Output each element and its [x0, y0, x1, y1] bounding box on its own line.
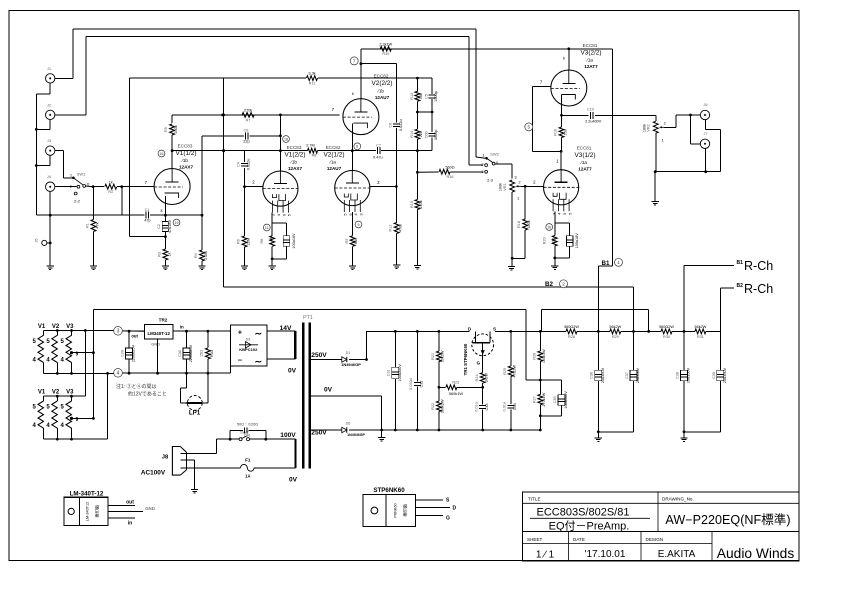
- resistor R27 body: [538, 394, 543, 405]
- title block table: [523, 492, 799, 561]
- junction EQ midB: [431, 111, 434, 114]
- svg-text:PT1: PT1: [303, 315, 313, 321]
- capacitor C31 body: [392, 367, 399, 378]
- svg-text:R30: R30: [663, 335, 670, 339]
- svg-text:20u350V: 20u350V: [601, 367, 605, 383]
- ground filt2: [683, 432, 685, 438]
- svg-text:R9: R9: [345, 239, 349, 244]
- wire 14V c: [267, 358, 296, 360]
- wire J4 out: [55, 186, 77, 188]
- wire V2a grid: [370, 186, 396, 188]
- svg-text:47p: 47p: [144, 219, 150, 223]
- ground J8: [191, 490, 198, 494]
- wire R18 join: [512, 257, 525, 259]
- svg-text:∕1b: ∕1b: [290, 160, 297, 165]
- HT rail through TR1: [439, 330, 470, 332]
- wire J8 pin3: [181, 467, 241, 469]
- svg-text:3900p: 3900p: [434, 130, 438, 141]
- terminal 16b: [546, 224, 553, 231]
- svg-text:R14: R14: [410, 131, 414, 138]
- resistor R8 body: [308, 148, 318, 153]
- capacitor C34 body: [507, 405, 514, 408]
- VR2 body: [653, 121, 658, 133]
- svg-text:in: in: [180, 325, 184, 330]
- junction VR1 gnd: [511, 257, 514, 260]
- heater winding V1 g1: [38, 335, 44, 362]
- svg-text:1: 1: [556, 158, 559, 163]
- svg-text:5.1k: 5.1k: [269, 237, 273, 244]
- wire B1 RCh drop: [683, 265, 685, 331]
- junction src riser: [539, 330, 542, 333]
- svg-text:∕1a: ∕1a: [329, 160, 336, 165]
- wire shield join1: [36, 93, 50, 95]
- svg-text:19: 19: [175, 221, 179, 225]
- junction J6 node: [689, 114, 692, 117]
- svg-text:C36: C36: [590, 372, 594, 379]
- svg-text:0.47u: 0.47u: [373, 155, 383, 159]
- jack J4: [46, 182, 55, 191]
- wire HT rail: [367, 330, 439, 332]
- terminal 4 rail: [114, 369, 123, 378]
- svg-text:DATE: DATE: [573, 537, 585, 542]
- svg-text:R23: R23: [452, 380, 459, 384]
- svg-text:12AX7: 12AX7: [288, 166, 302, 171]
- regulated feed line: [542, 308, 649, 310]
- junction snub a: [229, 438, 232, 441]
- svg-text:KBPC102: KBPC102: [239, 347, 258, 352]
- junction plate node V2b: [360, 62, 363, 65]
- triode V2(1/2): [335, 170, 370, 212]
- svg-text:C2: C2: [157, 224, 161, 229]
- svg-text:V2: V2: [52, 324, 60, 330]
- ground R17: [393, 265, 400, 269]
- svg-text:20u350V: 20u350V: [723, 367, 727, 383]
- capacitor C1500p: [429, 95, 436, 98]
- wire fuse out: [254, 467, 295, 469]
- junction brail C33: [481, 429, 484, 432]
- wire SRPP tie h: [533, 150, 562, 152]
- terminal 2 B2: [560, 280, 568, 288]
- V2(2/2) cathode lead: [351, 124, 353, 171]
- filter column B2: [633, 331, 635, 370]
- svg-text:約12Vであること: 約12Vであること: [128, 391, 167, 398]
- svg-text:J1: J1: [47, 66, 52, 71]
- svg-text:C39: C39: [712, 372, 716, 379]
- svg-text:250V: 250V: [311, 352, 327, 359]
- ST pkg pins: [416, 499, 443, 501]
- heater2 bottom bus: [44, 438, 108, 440]
- svg-text:C4: C4: [236, 162, 240, 167]
- svg-text:C32: C32: [420, 381, 424, 388]
- junction B2 at plate line: [222, 149, 225, 152]
- wire 14V b: [294, 331, 296, 359]
- junction V1b plate node: [279, 149, 282, 152]
- wire out gnd stub: [654, 172, 656, 202]
- svg-text:100k: 100k: [642, 124, 646, 132]
- svg-text:0.022u: 0.022u: [399, 119, 403, 131]
- svg-text:R20: R20: [543, 237, 547, 244]
- ground output: [652, 202, 659, 206]
- triode V1(2/2): [263, 171, 298, 213]
- junction rail3 C29: [128, 330, 131, 333]
- junction EQ rail a: [221, 114, 224, 117]
- wire D1 riser: [366, 331, 368, 359]
- wire J1 shield: [49, 83, 51, 94]
- junction B2 drop at 150: [222, 149, 225, 152]
- svg-text:100k1W: 100k1W: [542, 349, 546, 363]
- V3(2/2) cathode lead: [561, 95, 563, 127]
- junction feed rail: [647, 330, 650, 333]
- wire group2 return: [107, 373, 109, 439]
- svg-text:C29: C29: [120, 350, 124, 357]
- capacitor C35 body: [558, 395, 565, 406]
- terminal 11: [263, 224, 270, 231]
- wire CT riser: [92, 309, 94, 418]
- wire B2 RCh drop: [719, 288, 721, 331]
- wire J5 drop: [49, 215, 51, 266]
- wire TR1 source rail: [495, 330, 566, 332]
- resistor R6 grid leak: [244, 187, 246, 236]
- svg-text:9: 9: [348, 213, 353, 216]
- svg-text:R4: R4: [194, 253, 198, 258]
- ground R1: [90, 266, 97, 270]
- ground filt2 sym: [680, 438, 687, 442]
- wire EQ bottom corner: [417, 150, 432, 152]
- wire SW2 out: [495, 163, 512, 165]
- svg-text:3: 3: [271, 213, 276, 216]
- junction CT1 riser: [92, 351, 95, 354]
- svg-text:6: 6: [352, 92, 354, 96]
- junction src R25: [509, 330, 512, 333]
- svg-text:0.01u: 0.01u: [503, 402, 507, 412]
- wire cathode rail left: [50, 214, 144, 216]
- svg-text:R31: R31: [697, 335, 704, 339]
- svg-text:C10: C10: [587, 107, 594, 111]
- wire SW1 out: [86, 185, 94, 188]
- wire V1b grid: [245, 186, 264, 188]
- svg-text:560k1W: 560k1W: [449, 392, 463, 396]
- svg-text:620: 620: [551, 238, 555, 244]
- filter column B2RCh: [719, 331, 721, 370]
- svg-text:20u350V: 20u350V: [687, 367, 691, 383]
- wire C35 top: [540, 379, 561, 381]
- svg-text:240k: 240k: [419, 200, 423, 208]
- junction filt2: [683, 430, 686, 433]
- capacitor C3900p: [429, 134, 436, 137]
- resistor R16: [439, 169, 450, 174]
- svg-text:J6: J6: [703, 102, 708, 107]
- svg-text:R21: R21: [431, 353, 435, 360]
- wire rail4 full: [122, 372, 230, 374]
- svg-text:2.2u400V: 2.2u400V: [585, 120, 602, 124]
- wire rail R28-R29: [577, 330, 610, 332]
- wire SW3 out: [250, 438, 296, 440]
- junction plate V1a: [171, 149, 174, 152]
- svg-text:'17.10.01: '17.10.01: [585, 549, 626, 560]
- terminal 19: [173, 219, 180, 226]
- filter column B1RCh: [683, 331, 685, 370]
- wire 250V b: [349, 359, 367, 361]
- svg-text:2: 2: [562, 281, 565, 286]
- resistor R18 body: [523, 219, 528, 230]
- wire bus J2 to SW2 drop: [468, 37, 470, 166]
- heater winding V2 g1: [52, 335, 58, 362]
- svg-text:9: 9: [281, 213, 286, 216]
- wire SW2 contact1 feed: [476, 157, 486, 158]
- terminal 9: [355, 221, 362, 228]
- svg-text:100u350V: 100u350V: [398, 364, 402, 382]
- capacitor C33 body: [479, 406, 486, 409]
- capacitor C39 body: [717, 370, 724, 381]
- junction EQ rail b: [279, 114, 282, 117]
- svg-text:D3: D3: [246, 338, 251, 342]
- junction CT2: [70, 417, 73, 420]
- wire J4 shield: [49, 191, 51, 215]
- svg-text:−: −: [238, 356, 243, 365]
- heater1 bottom bus: [44, 372, 119, 374]
- wire top bus from J2: [86, 36, 469, 38]
- capacitor C30 body: [183, 348, 190, 359]
- svg-text:100u16V: 100u16V: [292, 233, 296, 249]
- bridge diode symbol: [239, 344, 258, 346]
- svg-text:100k: 100k: [527, 220, 531, 228]
- wire LP1 a: [186, 373, 188, 388]
- svg-text:R16: R16: [447, 175, 454, 179]
- svg-text:C1: C1: [145, 208, 150, 212]
- wire B2 R-Ch: [720, 287, 734, 289]
- svg-text:100k: 100k: [499, 183, 503, 191]
- wire TR2 out rail: [129, 330, 144, 332]
- resistor R8: [270, 236, 275, 247]
- ground R15: [414, 266, 421, 270]
- svg-text:C6b: C6b: [424, 131, 428, 138]
- svg-text:V3: V3: [66, 324, 74, 330]
- capacitor C36 body: [595, 370, 602, 381]
- svg-text:4: 4: [61, 423, 65, 429]
- resistor R23 body: [446, 385, 457, 390]
- resistor R17 body: [394, 223, 399, 234]
- junction B1 rail: [597, 330, 600, 333]
- capacitor C10 output: [562, 114, 589, 116]
- heater bias line: [93, 308, 526, 310]
- wire grid drop: [121, 187, 123, 216]
- svg-text:C9: C9: [243, 128, 248, 132]
- svg-text:R15: R15: [410, 201, 414, 208]
- filter column B1: [597, 331, 599, 370]
- junction HT C31: [394, 330, 397, 333]
- junction V3b plate: [567, 47, 570, 50]
- junction gate node: [481, 386, 484, 389]
- wire B1 R-Ch: [684, 264, 734, 266]
- svg-text:C30: C30: [178, 350, 182, 357]
- NF line with R11: [130, 77, 306, 79]
- wire C8 col bottom: [396, 128, 398, 186]
- junction brail C34: [509, 429, 512, 432]
- wire NF vertical: [129, 78, 131, 237]
- svg-text:C38: C38: [675, 372, 679, 379]
- jack J1: [46, 74, 55, 83]
- svg-text:2: 2: [533, 179, 536, 184]
- junction group2 return: [106, 372, 109, 375]
- junction cath V1b: [271, 257, 274, 260]
- resistor R25: [510, 331, 512, 366]
- svg-text:V2: V2: [52, 390, 60, 396]
- wire J1 riser: [72, 29, 74, 78]
- svg-text:R8: R8: [260, 239, 264, 244]
- SW2 contact 1: [485, 157, 488, 160]
- wire R2 to grid: [117, 186, 155, 188]
- junction group2 feed: [84, 329, 87, 332]
- svg-text:4: 4: [61, 358, 65, 364]
- capacitor C32 body: [414, 383, 421, 386]
- wire NF to cathode: [130, 236, 166, 238]
- junction heater1 b2: [56, 372, 59, 375]
- capacitor C100u b: [566, 236, 573, 247]
- junction C10 node: [560, 114, 563, 117]
- svg-text:11: 11: [265, 226, 269, 230]
- svg-text:0.033u: 0.033u: [409, 378, 413, 390]
- junction EQ midA: [416, 111, 419, 114]
- R16 line to SW2: [417, 171, 438, 173]
- wire J6 shield b: [705, 128, 720, 130]
- svg-text:4: 4: [46, 423, 50, 429]
- junction J4 shield: [49, 214, 52, 217]
- svg-text:SHEET: SHEET: [527, 537, 543, 542]
- triode V2(2/2): [343, 99, 379, 135]
- wire to C8 col: [361, 63, 397, 65]
- junction CT gnd: [380, 429, 383, 432]
- wire shield join3: [36, 165, 50, 167]
- wire J3 out: [55, 150, 63, 152]
- resistor R27: [539, 380, 541, 394]
- wire SW3 line: [217, 438, 239, 440]
- wire V3b grid: [533, 85, 551, 87]
- bridge rectifier D3 KBPC102: [231, 325, 267, 366]
- wire CT b: [381, 396, 383, 430]
- svg-text:J3: J3: [47, 138, 52, 143]
- svg-text:2200u25V: 2200u25V: [132, 344, 136, 362]
- capacitor C30: [186, 331, 188, 347]
- capacitor C29: [128, 331, 130, 347]
- svg-text:V2(2/2): V2(2/2): [372, 80, 393, 87]
- jack J2: [46, 110, 55, 119]
- terminal 16: [158, 150, 165, 157]
- junction grid node: [120, 185, 123, 188]
- svg-text:560Ω2W: 560Ω2W: [659, 325, 674, 329]
- wire J2 shield: [49, 120, 51, 130]
- wire LP1 e: [202, 402, 208, 404]
- wire J7 shield: [705, 149, 707, 172]
- svg-text:4: 4: [557, 212, 562, 215]
- diode D6: [342, 427, 347, 432]
- svg-text:TITLE: TITLE: [528, 496, 541, 501]
- junction out gnd b: [704, 170, 707, 173]
- svg-text:EQ付－PreAmp.: EQ付－PreAmp.: [549, 520, 630, 533]
- svg-text:S: S: [446, 497, 450, 503]
- svg-text:R29: R29: [612, 335, 619, 339]
- resistor R22: [438, 387, 440, 401]
- svg-text:G: G: [477, 361, 481, 366]
- svg-text:SW1: SW1: [77, 172, 86, 177]
- svg-text:3: 3: [359, 213, 364, 216]
- wire bias drop: [525, 309, 527, 380]
- svg-text:4: 4: [117, 371, 120, 377]
- wire EQ rail: [172, 114, 340, 116]
- svg-text:V3: V3: [66, 390, 74, 396]
- svg-text:AC100V: AC100V: [141, 470, 166, 477]
- resistor R18: [524, 186, 526, 219]
- svg-text:5: 5: [567, 212, 572, 215]
- wire VR2 wiper up: [675, 115, 677, 127]
- junction heater2 t2: [56, 395, 59, 398]
- wire minus stub: [230, 366, 232, 373]
- junction heater1 t3: [70, 329, 73, 332]
- svg-text:0.022u: 0.022u: [247, 159, 251, 171]
- wire VR2 bottom: [655, 133, 657, 172]
- jack J5: [42, 240, 47, 245]
- svg-text:∕1a: ∕1a: [586, 58, 593, 63]
- svg-text:12AU7: 12AU7: [327, 166, 342, 171]
- wire J8 gnd drop: [194, 460, 196, 490]
- junction R4 node: [201, 214, 204, 217]
- svg-text:1k: 1k: [167, 252, 171, 256]
- junction heater2 b3: [70, 438, 73, 441]
- wire bottom rail: [349, 429, 541, 431]
- svg-text:ECC83: ECC83: [178, 144, 193, 149]
- V3(1/2) cathode network: [554, 211, 556, 235]
- capacitor C32: [416, 331, 418, 381]
- heater winding V1 g2: [38, 401, 44, 428]
- svg-text:J4: J4: [47, 174, 52, 179]
- resistor R9: [350, 236, 355, 247]
- ground filt1 sym: [595, 438, 602, 442]
- svg-text:B1: B1: [602, 260, 610, 267]
- wire filt join1: [598, 431, 633, 433]
- svg-text:∕1b: ∕1b: [181, 158, 188, 163]
- wire J3 to SW1 h: [63, 177, 72, 179]
- svg-text:R5: R5: [164, 127, 168, 132]
- heater winding V2 g2: [52, 401, 58, 428]
- wire bus J1 to SW2 drop: [475, 29, 477, 157]
- resistor R21 body: [437, 351, 442, 362]
- capacitor C7: [377, 147, 380, 154]
- svg-text:680: 680: [354, 238, 358, 244]
- svg-text:560Ω2W: 560Ω2W: [564, 325, 579, 329]
- wire VR2 top: [655, 115, 657, 121]
- junction heater1 t2: [56, 329, 59, 332]
- svg-text:F1: F1: [245, 457, 251, 462]
- diode D1: [342, 357, 347, 362]
- svg-text:R-Ch: R-Ch: [744, 282, 773, 296]
- resistor R24: [480, 373, 485, 384]
- svg-text:22M: 22M: [247, 238, 251, 245]
- V2(1/2) cathode network: [352, 212, 354, 236]
- wire LP1 f: [207, 374, 209, 403]
- resistor R6 body: [242, 236, 247, 247]
- junction TR2 gnd: [156, 372, 159, 375]
- svg-text:4: 4: [33, 358, 37, 364]
- svg-text:4: 4: [46, 358, 50, 364]
- svg-text:R-Ch: R-Ch: [744, 259, 773, 273]
- svg-text:470k: 470k: [399, 224, 403, 232]
- junction bias node: [539, 379, 542, 382]
- junction C9 node: [279, 134, 282, 137]
- svg-text:1: 1: [617, 260, 620, 265]
- capacitor C3: [241, 164, 248, 167]
- svg-text:0.01u: 0.01u: [475, 402, 479, 412]
- junction filt1: [597, 430, 600, 433]
- svg-text:D1: D1: [346, 351, 351, 355]
